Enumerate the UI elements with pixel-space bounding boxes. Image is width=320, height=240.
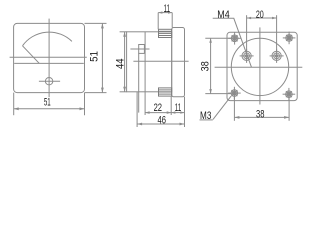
dimension 20 line [247, 17, 277, 19]
svg-text:44: 44 [115, 58, 127, 69]
svg-text:M4: M4 [217, 9, 230, 21]
front view zero adjuster crosshair [39, 80, 60, 82]
dimension 11 top line [158, 12, 172, 14]
dimension 22 line [145, 112, 171, 114]
svg-text:11: 11 [175, 101, 181, 113]
dimension 38 bottom arrows [234, 116, 289, 119]
dimension 38 vertical extension top [205, 37, 231, 39]
svg-text:M3: M3 [200, 110, 211, 123]
back view stud bottom-left [228, 87, 241, 100]
back view stud bottom-right [283, 88, 296, 101]
svg-text:46: 46 [157, 114, 165, 127]
dimension 51 width extension left [13, 93, 15, 116]
dimension 11 top arrows [158, 11, 172, 13]
dimension 38 vertical line [210, 38, 212, 93]
front view zero adjuster circle [45, 78, 52, 85]
dimension 38 bottom extension left [233, 96, 235, 120]
side view top stud M4 [159, 29, 172, 37]
dimension 44 line [124, 32, 126, 92]
back view round body circle [231, 38, 288, 95]
front view bezel 51x51 [14, 23, 85, 92]
side view horizontal center line [133, 60, 188, 62]
svg-text:20: 20 [256, 9, 264, 21]
svg-text:51: 51 [44, 96, 51, 108]
dimension 51 height line [101, 23, 103, 92]
dimension 11 top extension left [157, 13, 159, 30]
dimension 46 extension right [184, 97, 186, 127]
dimension 11 side arrows [171, 111, 184, 113]
back view stud top-left [228, 32, 241, 45]
dimension 46 extension left [136, 92, 138, 127]
front view scale arc [23, 32, 72, 46]
dimension 51 height arrows [101, 23, 104, 92]
back view horizontal center line [215, 66, 303, 68]
front view pointer needle [23, 46, 40, 64]
back view square flange [227, 32, 297, 100]
dimension 11 side extension [170, 96, 172, 115]
front view upper horizontal line [10, 56, 87, 58]
dimension 38 bottom line [234, 116, 289, 118]
dimension 51 height extension bottom [85, 92, 107, 94]
dimension 20 extension left [246, 15, 248, 51]
dimension 44 extension bottom [120, 91, 127, 93]
side view case body [127, 32, 172, 92]
dimension 22 arrows [145, 111, 171, 114]
svg-text:51: 51 [89, 51, 101, 62]
side view rear seam line [138, 53, 140, 112]
back view stud top-right [283, 32, 296, 45]
dimension 11 top extension right [171, 13, 173, 28]
svg-text:22: 22 [154, 102, 162, 115]
label M3 leader [213, 96, 231, 119]
dimension 44 extension top [120, 31, 127, 33]
dimension 11 side line [171, 112, 184, 114]
label M4 leader [213, 18, 252, 67]
dimension 20 extension right [276, 15, 278, 51]
dimension 46 line [137, 123, 184, 125]
dimension 51 width line [14, 108, 85, 110]
side view terminal center line [130, 48, 149, 50]
back view vertical center line [259, 27, 261, 104]
side view inner seam line [144, 32, 146, 115]
dimension 38 bottom extension right [288, 98, 290, 121]
dimension 20 arrows [247, 17, 277, 20]
dimension 46 arrows [137, 123, 184, 126]
dimension 51 height extension top [85, 22, 107, 24]
svg-text:11: 11 [164, 2, 170, 14]
front view center line vertical [48, 19, 50, 98]
svg-text:38: 38 [200, 61, 212, 71]
front view lower horizontal line [14, 62, 84, 64]
side view bottom stud M4 [159, 88, 172, 96]
side view terminal M3 block [139, 45, 145, 54]
back view terminal left [240, 49, 254, 63]
dimension 38 vertical extension bottom [205, 93, 231, 95]
dimension 44 arrows [123, 32, 126, 92]
svg-text:38: 38 [256, 108, 264, 121]
back view terminal right [270, 49, 284, 63]
dimension 51 width extension right [84, 93, 86, 116]
label M3 underline [200, 119, 213, 121]
dimension 38 vertical arrows [209, 38, 212, 93]
side view bezel [172, 28, 185, 97]
dimension 51 width arrows [14, 107, 85, 110]
